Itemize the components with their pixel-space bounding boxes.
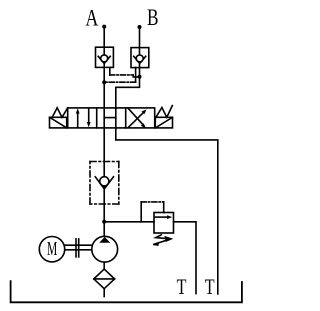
tank reservoir outline bbox=[11, 281, 242, 302]
pilot-operated check valve V2 (B line) bbox=[131, 48, 149, 68]
valve centre position H (open centre) bbox=[104, 117, 116, 119]
wire relief pilot drop to valve top bbox=[163, 202, 165, 213]
relief valve arrow bbox=[155, 215, 172, 219]
junction dot on A line bbox=[102, 80, 106, 84]
svg-text:A: A bbox=[85, 5, 98, 30]
svg-text:M: M bbox=[47, 238, 57, 260]
filter FL1 bbox=[94, 269, 115, 289]
pilot-operated check valve V1 (A line) bbox=[96, 47, 114, 67]
svg-text:B: B bbox=[147, 5, 159, 30]
wire pump suction bbox=[103, 263, 105, 269]
check valve V3 symbol bbox=[95, 177, 113, 189]
relief valve F1 body bbox=[154, 213, 174, 234]
node B port dot bbox=[138, 25, 142, 29]
coupling motor-pump bbox=[65, 239, 92, 257]
wire pilot tap from V1 (solid drop) bbox=[109, 67, 111, 75]
junction dot on B line bbox=[138, 75, 142, 79]
pump outlet triangle bbox=[99, 237, 110, 243]
node A port dot bbox=[102, 25, 106, 29]
wire relief pilot riser bbox=[140, 202, 142, 222]
wire relief valve inlet bbox=[104, 221, 154, 223]
wire filter to tank bbox=[103, 289, 105, 297]
relief valve spring (adjustable) bbox=[153, 235, 173, 246]
valve left position arrows (parallel) bbox=[76, 108, 91, 127]
wire pilot line V2 to A line (dash-dot) bbox=[104, 81, 135, 83]
svg-text:T: T bbox=[205, 274, 215, 299]
directional valve U1 body (4/3 solenoid valve) bbox=[68, 108, 155, 128]
wire pilot tap from V2 (solid drop, crosses other pilot line) bbox=[135, 68, 137, 83]
wire B main line (B port, jog, through valve, T return to tank) bbox=[116, 27, 218, 294]
wire pilot line V1 to B line (dash-dot) bbox=[110, 75, 140, 77]
pump P1 circle bbox=[92, 236, 118, 262]
solenoid Y2 (right) bbox=[155, 106, 172, 128]
solenoid Y1 (left) bbox=[50, 108, 68, 128]
check valve V3 in subplate (dash-dot enclosure) bbox=[90, 162, 119, 205]
svg-text:T: T bbox=[177, 274, 187, 299]
motor M1 circle bbox=[39, 237, 64, 262]
wire A main line (A port through valve to pump) bbox=[103, 27, 105, 237]
valve right position arrows (crossed) bbox=[128, 108, 147, 128]
wire relief valve outlet to tank bbox=[174, 222, 197, 294]
junction dot pump outlet bbox=[102, 220, 106, 224]
wire relief pilot top (dash-dot) bbox=[141, 201, 164, 203]
